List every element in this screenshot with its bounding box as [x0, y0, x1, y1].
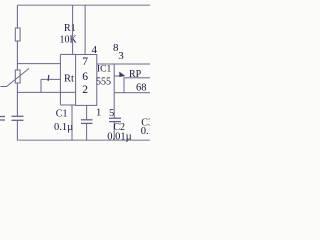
- svg-text:0.01µ: 0.01µ: [107, 131, 131, 142]
- svg-text:1: 1: [96, 108, 101, 119]
- svg-text:R1: R1: [64, 23, 76, 34]
- wire Vcc drop pin8: [84, 5, 86, 54]
- node tick on pin6 wire: [47, 75, 50, 81]
- thermistor Rt: [1, 69, 30, 87]
- wire RP return: [114, 92, 124, 94]
- wire pin2 net: [17, 91, 75, 93]
- capacitor C1: [81, 105, 93, 140]
- capacitor cut at left edge: [0, 117, 5, 121]
- wire feeder vertical: [59, 54, 61, 105]
- svg-text:555: 555: [96, 76, 111, 87]
- potentiometer RP body: [124, 78, 151, 93]
- svg-text:4: 4: [92, 44, 98, 56]
- wire RP wiper: [114, 75, 124, 77]
- wire top rail: [17, 4, 150, 6]
- svg-text:68: 68: [136, 83, 147, 94]
- wire Vcc drop pin4: [72, 5, 74, 54]
- wire pin7 feeder horizontal: [17, 63, 60, 65]
- svg-text:C1: C1: [56, 108, 68, 119]
- wire feeder bottom link: [60, 104, 75, 106]
- capacitor C2: [109, 118, 121, 140]
- wire pin3 output: [97, 63, 150, 65]
- wire pin3 drop to C2: [113, 64, 115, 118]
- svg-text:IC1: IC1: [97, 64, 112, 74]
- svg-text:0.1µ: 0.1µ: [54, 122, 73, 133]
- svg-text:RP: RP: [129, 69, 142, 80]
- capacitor left plates: [12, 116, 24, 120]
- wire pin6-pin2 link: [40, 79, 42, 92]
- wire left rail: [16, 5, 18, 116]
- wire pin6 stub: [41, 78, 60, 80]
- svg-text:5: 5: [109, 108, 114, 119]
- wire left rail lower: [16, 121, 18, 141]
- wire GND stub: [71, 105, 73, 140]
- svg-text:Rt: Rt: [64, 74, 74, 85]
- svg-text:3: 3: [118, 50, 124, 62]
- svg-text:2: 2: [82, 84, 88, 96]
- svg-text:10K: 10K: [60, 34, 78, 45]
- wire feeder top link: [60, 53, 75, 55]
- wire bottom rail: [17, 139, 150, 141]
- svg-text:0.1µ: 0.1µ: [141, 126, 150, 137]
- IC IC1 555 timer body: [76, 55, 97, 106]
- svg-text:7: 7: [82, 56, 88, 68]
- node wiper arrowhead: [119, 72, 125, 77]
- svg-text:6: 6: [82, 71, 88, 83]
- resistor R1: [15, 28, 20, 41]
